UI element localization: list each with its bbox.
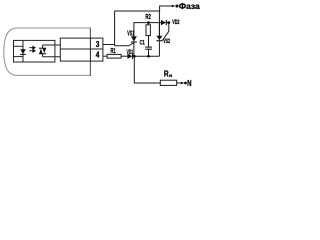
optocoupler LED cathode stub <box>14 56 24 58</box>
diode VD2 <box>161 20 169 25</box>
light arrow lower <box>29 50 35 53</box>
wire bottom rail <box>133 55 160 57</box>
svg-text:3: 3 <box>96 39 100 49</box>
wire pin3 stub and VS1 gate wire <box>103 43 134 46</box>
resistor R1 <box>107 54 121 58</box>
wire R1 to VD1 <box>121 55 127 57</box>
svg-text:VD1: VD1 <box>127 49 134 56</box>
optocoupler LED lead <box>22 40 24 62</box>
enclosure outline (SSR body, rounded left side) <box>4 28 91 75</box>
optocoupler photo-triac <box>39 45 46 57</box>
resistor Rn load <box>160 80 176 85</box>
wire VS2 gate <box>162 23 169 41</box>
wire top rail to phase <box>115 6 172 11</box>
light arrow upper <box>29 46 35 49</box>
thyristor VS2 <box>156 23 162 57</box>
terminal dot phase <box>175 4 178 7</box>
terminal dot N <box>184 82 187 85</box>
node R2 top <box>147 21 150 24</box>
wire Rn to N <box>177 82 182 84</box>
wire VS2 anode vertical <box>158 11 160 36</box>
wire opto to terminal box upper <box>43 44 61 46</box>
svg-text:Фаза: Фаза <box>179 1 200 11</box>
terminal arrow phase <box>172 5 176 8</box>
capacitor C1 <box>145 47 152 56</box>
diode VD1 <box>127 54 132 59</box>
terminal box with pins 3 and 4 <box>60 38 103 61</box>
svg-text:VD2: VD2 <box>172 19 180 26</box>
wire to load <box>134 56 160 83</box>
optocoupler LED anode stub <box>14 45 24 47</box>
svg-text:VS1: VS1 <box>127 31 134 38</box>
svg-text:R1: R1 <box>111 46 116 55</box>
svg-text:R2: R2 <box>145 12 150 21</box>
wire VS1 anode branch <box>134 23 161 37</box>
wire pin4 stub <box>103 55 107 57</box>
optocoupler U1 box <box>14 40 55 62</box>
svg-text:VS2: VS2 <box>163 38 170 45</box>
wire opto to terminal box lower <box>43 56 61 58</box>
svg-text:4: 4 <box>96 49 100 59</box>
node VD2 cathode <box>167 21 170 24</box>
enclosure right edge lower segment <box>89 61 91 76</box>
node C1 bottom on rail <box>147 55 150 58</box>
svg-text:н: н <box>169 73 172 78</box>
svg-text:C1: C1 <box>140 40 145 47</box>
thyristor VS1 <box>131 36 137 56</box>
wire vertical from pin3 to top rail <box>114 11 116 46</box>
optocoupler LED diode <box>20 49 26 54</box>
svg-text:N: N <box>187 78 191 88</box>
terminal arrow N <box>181 82 185 84</box>
node VS1 cathode on rail <box>133 55 136 58</box>
resistor R2 <box>146 23 150 47</box>
enclosure right edge upper segment <box>89 28 91 39</box>
